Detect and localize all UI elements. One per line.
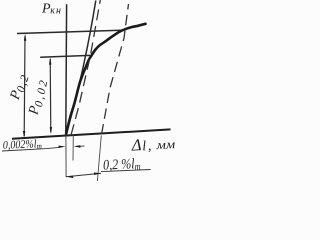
dimension line P0,2 [23,34,26,139]
svg-text:Δ: Δ [130,135,142,155]
tick below axis at origin [65,134,67,177]
axis label P_kn [41,1,61,16]
tick below axis 0.002% [72,135,74,161]
label P0,02 rotated [26,76,50,117]
dashed offset line 0.002% [71,0,100,135]
arrow right to origin tick [59,146,66,149]
axis label dl,mm [130,133,176,155]
label 0,2%lt underlined [103,156,141,174]
dashed offset line 0.2% [102,4,129,135]
level line P0,2 [17,30,121,33]
load-elongation curve [66,24,146,135]
svg-text:кн: кн [50,6,61,17]
vertical axis [65,4,68,135]
level line P0,02 [40,55,90,57]
label 0,002%lt underlined [3,138,43,152]
elastic straight line [66,1,96,135]
arrow left at 0.002% tick [74,145,85,148]
baseline x-axis [12,129,171,138]
dimension line P0,02 [49,57,52,134]
dimension arrow line 0.2% [66,173,101,179]
svg-text:мм: мм [155,137,175,152]
tick below axis 0.2% [97,136,101,182]
label P0,2 rotated [8,71,33,103]
